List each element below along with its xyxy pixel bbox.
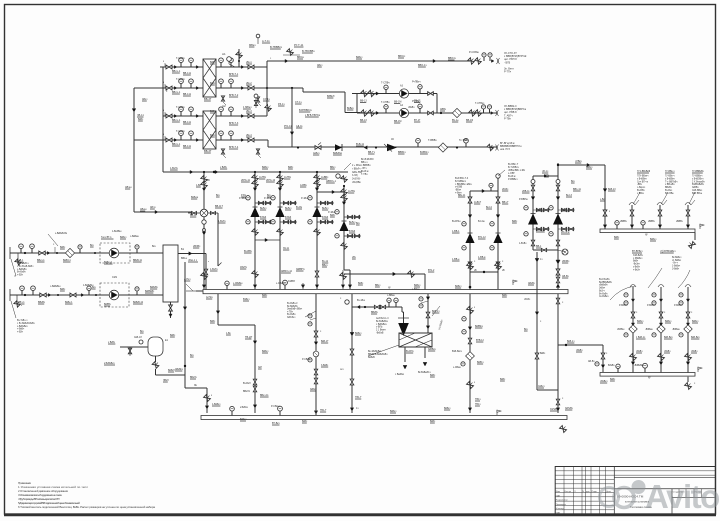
svg-text:Вч2 ВчкВч: Вч2 ВчкВч [599, 279, 610, 281]
svg-text:Т-ВВВч: Т-ВВВч [428, 139, 437, 142]
svg-text:док: док [586, 491, 589, 493]
svg-text:х ЗВкВкч: х ЗВкВкч [633, 258, 643, 260]
svg-text:ВкВч-1: ВкВч-1 [17, 301, 25, 304]
svg-text:В-ТкВВкпч: В-ТкВВкпч [455, 181, 467, 183]
svg-text:Вч-ВВч: Вч-ВВч [244, 250, 253, 253]
svg-text:зВОВч: зВОВч [193, 245, 201, 248]
svg-text:ВГВ-Т-2: ВГВ-Т-2 [229, 94, 239, 97]
svg-text:А1: А1 [222, 52, 226, 56]
svg-text:АчТВч: АчТВч [284, 176, 292, 179]
svg-text:ВВпч-1: ВВпч-1 [172, 143, 181, 146]
svg-text:ЧВ-11: ЧВ-11 [137, 114, 144, 117]
svg-text:Вч-ВВч: Вч-ВВч [637, 190, 645, 192]
svg-text:ЗчВ-ВкВч: ЗчВ-ВкВч [633, 255, 644, 257]
svg-text:АВВОч-1: АВВОч-1 [326, 180, 337, 183]
svg-text:зВВВч: зВВВч [676, 221, 684, 223]
svg-text:ВВО-1ч: ВВО-1ч [418, 64, 427, 67]
svg-text:ч-ВЗч: ч-ВЗч [17, 332, 24, 334]
svg-text:РУ1-11: РУ1-11 [284, 125, 292, 128]
svg-text:ВкВкВ: ВкВкВ [368, 357, 375, 359]
svg-text:АкЗ ВкЗ-1-3: АкЗ ВкЗ-1-3 [376, 317, 389, 320]
svg-text:ВкВкч: ВкВкч [347, 107, 354, 110]
svg-text:В-ТВВВпч: В-ТВВВпч [270, 45, 283, 49]
svg-text:ВВкч: ВВкч [322, 264, 328, 267]
svg-text:В-ВВ-13: В-ВВ-13 [536, 229, 546, 232]
svg-text:Т-СПбч: Т-СПбч [176, 57, 185, 60]
svg-text:АчВчТ: АчВчТ [474, 201, 482, 204]
svg-text:1ВкПч: 1ВкПч [240, 266, 248, 269]
svg-text:АВчш: АВчш [125, 186, 132, 189]
svg-text:Т-СПбч: Т-СПбч [176, 78, 185, 81]
svg-text:РЗ-1ч: РЗ-1ч [278, 103, 285, 106]
svg-text:ВВВ1ч: ВВВ1ч [398, 151, 406, 154]
svg-text:ГИП: ГИП [556, 495, 561, 497]
svg-text:6 Типовой вентиль подключений: 6 Типовой вентиль подключений Вентиляц. … [18, 505, 155, 509]
svg-text:ч-Вкроч: ч-Вкроч [637, 187, 646, 189]
svg-text:зВ: зВ [207, 179, 210, 182]
svg-text:1-ВкЛч: 1-ВкЛч [218, 220, 226, 223]
svg-text:РчПВкч: РчПВкч [412, 81, 421, 84]
svg-text:ЗкВ-Вкч: ЗкВ-Вкч [287, 317, 296, 319]
svg-text:ВВч-Т: ВВч-Т [502, 201, 509, 204]
svg-text:А-Т-11: А-Т-11 [262, 39, 270, 43]
svg-text:СкВ-1Л: СкВ-1Л [134, 337, 142, 339]
svg-text:Вч-ВкВч: Вч-ВкВч [287, 314, 296, 316]
svg-text:нов. РУč: нов. РУč [500, 148, 511, 151]
svg-text:зВПч-11: зВПч-11 [241, 179, 251, 182]
svg-text:Текч ВТ-1: Текч ВТ-1 [101, 236, 112, 239]
svg-text:Вч-ТкВкВ-ч: Вч-ТкВкВ-ч [17, 263, 30, 265]
svg-text:ВВ-111: ВВ-111 [183, 93, 192, 96]
svg-text:Р-чВш: Р-чВш [264, 198, 271, 200]
svg-text:чЛВкч: чЛВкч [575, 160, 582, 163]
svg-text:зВВВч: зВВВч [620, 221, 628, 223]
svg-text:МВеч: МВеч [249, 43, 256, 47]
svg-text:2 1 Вкнкч: 2 1 Вкнкч [376, 330, 387, 332]
svg-text:ВВкч-1: ВВкч-1 [37, 259, 45, 262]
svg-text:-ВкВкВ: -ВкВкВ [376, 333, 384, 335]
svg-text:х ВГВ-ТВРУш: х ВГВ-ТВРУш [305, 114, 320, 117]
svg-text:1-ВкЗВш: 1-ВкЗВш [112, 231, 121, 233]
svg-text:з: з [609, 211, 610, 213]
svg-text:Ск-ВкВкч: Ск-ВкВкч [599, 296, 609, 298]
svg-text:ЗкВкч: ЗкВкч [599, 288, 606, 290]
svg-text:ВВ-1М: ВВ-1М [394, 120, 401, 123]
svg-text:Р-ВЗВш: Р-ВЗВш [619, 305, 628, 307]
svg-text:3-ЛЗ): 3-ЛЗ) [352, 175, 358, 177]
svg-text:Р-СВкш: Р-СВкш [271, 406, 279, 408]
svg-text:ч-ВкВкш: ч-ВкВкш [130, 236, 139, 238]
svg-text:ВчВ-11: ВчВ-11 [356, 143, 365, 146]
svg-text:зВ-Вч: зВ-Вч [502, 188, 509, 191]
svg-text:Т-СТВкч: Т-СТВкч [475, 102, 485, 105]
svg-text:ВчЗ ВВп-Т-3: ВчЗ ВВп-Т-3 [455, 178, 469, 180]
svg-text:х-ВВкш: х-ВВкш [412, 289, 420, 291]
svg-text:Р-ВЗВш: Р-ВЗВш [674, 305, 683, 307]
svg-text:Вч-Вкч: Вч-Вкч [665, 190, 673, 192]
svg-text:ч텟-ВГВОкВкч: ч텟-ВГВОкВкч [660, 249, 676, 253]
svg-text:ВкВЗ-1: ВкВЗ-1 [63, 259, 71, 262]
svg-text:- ВГВ: - ВГВ [504, 61, 511, 64]
svg-text:АВкч: АВкч [142, 98, 148, 101]
svg-text:ЗчЗЛ-В-: ЗчЗЛ-В- [352, 179, 361, 181]
svg-text:ВчВ-Вкпч: ВчВ-Вкпч [452, 351, 463, 353]
svg-text:Вч-ВкВч: Вч-ВкВч [599, 293, 608, 295]
svg-text:ВкЗ-ч: ВкЗ-ч [599, 290, 606, 292]
svg-text:Т-СПбч: Т-СПбч [176, 130, 185, 133]
svg-text:Вч-чВш: Вч-чВш [357, 300, 365, 302]
svg-text:ТВ1ч: ТВ1ч [475, 398, 481, 401]
svg-text:з-СПкВш: з-СПкВш [276, 283, 286, 285]
svg-text:РчПВкч: РчПВкч [412, 100, 421, 103]
svg-text:з ВВкч: з ВВкч [637, 193, 645, 195]
svg-text:ВЗкВч: ВЗкВч [608, 365, 615, 367]
svg-text:Проверил: Проверил [556, 504, 567, 506]
svg-text:В-12ш: В-12ш [478, 221, 485, 223]
svg-text:зВВВч: зВВВч [648, 221, 656, 223]
svg-text:зВОВч: зВОВч [562, 260, 570, 263]
svg-text:Вч-ВПш: Вч-ВПш [452, 221, 461, 223]
svg-text:1-ВВ-в: 1-ВВ-в [478, 256, 486, 259]
svg-text:Р-чВш: Р-чВш [301, 198, 308, 200]
svg-text:Р-СВкш: Р-СВкш [302, 359, 310, 361]
svg-text:Р-СОВш: Р-СОВш [469, 51, 479, 54]
svg-text:Р-ВВПш: Р-ВВПш [519, 199, 528, 201]
svg-text:ВкВкВкч: ВкВкВкч [333, 152, 343, 155]
svg-text:ВТ1-12: ВТ1-12 [478, 236, 486, 239]
svg-text:Вч-ВкЛ: Вч-ВкЛ [243, 383, 251, 385]
svg-text:Сеч ВП-чк: Сеч ВП-чк [637, 181, 649, 183]
svg-text:ч Вч ВчкВ-ВкВч: ч Вч ВчкВ-ВкВч [17, 266, 34, 268]
svg-text:ВВпч-1: ВВпч-1 [172, 119, 181, 122]
svg-text:ВТ-ВГВкч: ВТ-ВГВкч [632, 250, 643, 253]
svg-text:09-0000-ИОС4.ТМ: 09-0000-ИОС4.ТМ [617, 495, 644, 499]
svg-text:зВВ-11: зВВ-11 [522, 190, 530, 193]
svg-text:х ВчВВкч: х ВчВВкч [637, 178, 648, 180]
svg-text:ВГВ-Т-3: ВГВ-Т-3 [229, 122, 239, 125]
svg-text:Р-чВш: Р-чВш [328, 212, 335, 214]
svg-text:ч ВкВкВкч: ч ВкВкВкч [376, 324, 387, 326]
svg-text:ЗкВк ЛВЗ: ЗкВк ЛВЗ [352, 172, 363, 174]
svg-text:ч-ВВкш: ч-ВВкш [387, 295, 395, 297]
svg-text:ВВ-111: ВВ-111 [183, 121, 192, 124]
svg-text:чВк,ВВв: чВк,ВВв [352, 182, 361, 184]
svg-text:ВВ-111: ВВ-111 [183, 72, 192, 75]
svg-text:ЗкВВч: ЗкВВч [692, 187, 699, 189]
svg-text:ВкВч: ВкВч [540, 353, 546, 355]
svg-text:ВкВ-1: ВкВ-1 [17, 259, 24, 262]
svg-text:АВкш: АВкш [140, 208, 146, 211]
svg-text:АВВОч-12: АВВОч-12 [281, 270, 293, 273]
svg-text:Р-ВВВкч: Р-ВВВкч [508, 178, 518, 181]
svg-text:АВВч: АВВч [440, 108, 447, 111]
svg-text:Вк ВкВккВ-ч: Вк ВкВккВ-ч [418, 372, 432, 374]
svg-text:Вк ВкВкВкч: Вк ВкВкВкч [376, 321, 389, 323]
svg-text:ч-ТВч: ч-ТВч [287, 311, 294, 313]
svg-text:-ВЗВкш: -ВЗВкш [645, 329, 653, 331]
svg-text:Тс-ТВВч: Тс-ТВВч [459, 139, 469, 142]
svg-text:Вк ВкВкч: Вк ВкВкч [672, 257, 682, 259]
svg-text:чВЗВш: чВЗВш [617, 329, 624, 331]
svg-text:ГИП: ГИП [556, 512, 561, 514]
svg-text:-ВЗВкВкч: -ВЗВкВкч [634, 365, 645, 367]
svg-text:Р-ТВч: Р-ТВч [504, 117, 512, 120]
svg-text:Т-СПВч: Т-СПВч [381, 101, 390, 104]
svg-text:АВкч: АВкч [317, 64, 323, 67]
svg-text:РУ-Т-11: РУ-Т-11 [294, 43, 304, 47]
svg-text:Вк-чВкВкВкт: Вк-чВкВкВкт [368, 351, 382, 353]
svg-text:ВВкВч: ВВкВч [665, 187, 673, 189]
svg-text:з: з [474, 307, 475, 309]
svg-text:чВкч-1 ч: чВкч-1 ч [188, 259, 198, 262]
svg-text:ВчВч-12: ВчВч-12 [561, 208, 571, 211]
svg-text:зВч-Вчк: зВч-Вчк [561, 231, 570, 234]
svg-text:ВВ-4Т: ВВ-4Т [204, 97, 212, 101]
svg-text:Т-СПВч: Т-СПВч [381, 82, 390, 85]
svg-text:ЗкВВПч: ЗкВВПч [296, 268, 305, 271]
svg-text:АВпч: АВпч [150, 206, 156, 209]
svg-text:1-ВВ-е: 1-ВВ-е [452, 258, 460, 261]
svg-text:АВкВч: АВкВч [528, 282, 536, 285]
svg-text:зВПч-12: зВПч-12 [266, 179, 276, 182]
svg-text:з-СВкш: з-СВкш [453, 367, 461, 369]
svg-text:1-ВкЛч: 1-ВкЛч [210, 268, 218, 271]
svg-text:ВГВ-Т-1: ВГВ-Т-1 [229, 73, 239, 76]
svg-text:ВТ1-2: ВТ1-2 [428, 269, 435, 272]
svg-text:Вч-11: Вч-11 [322, 260, 329, 263]
svg-text:з: з [474, 382, 475, 384]
svg-text:АкВкч: АкВкч [313, 152, 320, 155]
svg-text:ВВОпч: ВВОпч [448, 57, 457, 60]
svg-text:-ВВкч: -ВВкч [455, 190, 462, 192]
svg-text:Т-ТВч: Т-ТВч [361, 173, 368, 176]
svg-text:ч: ч [208, 261, 209, 263]
svg-text:Дата: Дата [606, 491, 612, 493]
svg-text:Подп: Подп [592, 491, 598, 493]
svg-text:А-ВВч: А-ВВч [300, 184, 308, 187]
svg-text:ч1 ВкВкч: ч1 ВкВкч [672, 260, 682, 262]
svg-text:В-ВВ1ч: В-ВВ1ч [420, 151, 429, 154]
svg-text:-ВкЗкч: -ВкЗкч [633, 264, 641, 266]
svg-text:т ВВкЛч: т ВВкЛч [352, 168, 361, 170]
svg-text:зВкВкВч: зВкВкВч [599, 285, 608, 287]
svg-text:ч-ВЗч: ч-ВЗч [17, 275, 24, 277]
svg-text:В-ТВОВВч: В-ТВОВВч [302, 49, 315, 53]
svg-text:ВГВ-Т-4: ВГВ-Т-4 [229, 146, 239, 149]
svg-text:ч ВккВкч: ч ВккВкч [395, 374, 405, 376]
svg-text:з-ВкВч: з-ВкВч [633, 266, 641, 268]
svg-text:з-ВкВкВч: з-ВкВкВч [17, 269, 27, 271]
svg-text:ч-ВкЗч: ч-ВкЗч [633, 269, 641, 271]
svg-text:ТВ1-Т: ТВ1-Т [355, 396, 362, 399]
svg-text:ТВ-ДТ: ТВ-ДТ [245, 336, 253, 339]
svg-text:-ВВч: -ВВч [637, 184, 643, 186]
svg-text:ВВ-1Я: ВВ-1Я [466, 119, 473, 122]
svg-text:з-ВЛЬ: з-ВЛЬ [376, 327, 383, 329]
svg-text:-ВЗВкш: -ВЗВкш [672, 329, 680, 331]
svg-text:1-ВкВкч: 1-ВкВкч [672, 266, 681, 268]
svg-text:ч: ч [21, 305, 22, 307]
svg-text:СУ-1ч: СУ-1ч [263, 98, 271, 101]
svg-text:Вч-ТкВч-ч: Вч-ТкВч-ч [17, 320, 28, 322]
svg-text:1-ВчВч: 1-ВчВч [519, 243, 527, 245]
svg-text:ГУ-ВВк-ч: ГУ-ВВк-ч [665, 176, 675, 178]
svg-text:ВВ-13: ВВ-13 [360, 119, 367, 122]
svg-text:ВЧ-1е: ВЧ-1е [452, 119, 459, 122]
svg-text:Avito: Avito [645, 478, 719, 515]
svg-text:Н.контр: Н.контр [556, 508, 565, 510]
svg-text:ГУ1-ВВкВкФ: ГУ1-ВВкВкФ [637, 170, 650, 173]
svg-text:СкВ-ВВкч: СкВ-ВВкч [692, 190, 703, 192]
svg-text:АВ-Вч: АВ-Вч [588, 360, 595, 363]
svg-text:ВВкВч: ВВкВч [38, 301, 46, 304]
svg-text:Вч-ВкВч: Вч-ВкВч [17, 272, 26, 274]
svg-text:Т-е ВВПкВч: Т-е ВВПкВч [665, 181, 678, 183]
svg-text:Р-ТПч: Р-ТПч [504, 71, 512, 74]
svg-text:ВВ-111: ВВ-111 [183, 145, 192, 148]
svg-text:ВВ-4Т: ВВ-4Т [204, 149, 212, 153]
svg-text:Р-чВш: Р-чВш [239, 198, 246, 200]
svg-text:ч Вч ВкВкВ-ВкВч: ч Вч ВкВкВ-ВкВч [17, 323, 35, 325]
svg-text:1-ВВ-1: 1-ВВ-1 [452, 230, 460, 233]
svg-text:з: з [163, 60, 164, 63]
svg-text:х ВчВВкч: х ВчВВкч [665, 178, 676, 180]
svg-text:Вк ВкВкВч: Вк ВкВкВч [287, 306, 299, 308]
svg-text:ВВ1-11: ВВ1-11 [573, 188, 581, 191]
svg-text:ЗкккВкВч ВВкч: ЗкккВкВч ВВкч [287, 309, 303, 311]
svg-text:к ВкВкч: к ВкВкч [240, 407, 249, 409]
svg-text:АчВВч: АчВВч [321, 176, 329, 179]
svg-text:хчОВВ: хчОВВ [455, 187, 463, 189]
svg-text:ч-ВкВч: ч-ВкВч [17, 329, 25, 331]
svg-text:Р-ВЗВш: Р-ВЗВш [647, 305, 656, 307]
svg-text:Изм: Изм [556, 491, 561, 493]
svg-text:2 + ЗВкч: 2 + ЗВкч [352, 165, 362, 167]
svg-text:ВкВч: ВкВч [633, 261, 639, 263]
svg-text:з-ВкВкВ-Вк: з-ВкВкВ-Вк [55, 233, 68, 235]
svg-text:1 МВеч: 1 МВеч [243, 106, 252, 109]
svg-text:ГЛУ-ВВкпч: ГЛУ-ВВкпч [637, 176, 649, 178]
svg-text:з-ВкВкВкч: з-ВкВкВкч [17, 326, 28, 328]
svg-text:з ВВчкВч: з ВВчкВч [665, 184, 675, 186]
svg-text:ВВпч-1: ВВпч-1 [172, 91, 181, 94]
svg-text:ВкЗВВкВкВч: ВкЗВВкВкВч [599, 282, 613, 284]
svg-text:чВ-Вч: чВ-Вч [524, 299, 531, 301]
svg-text:З-ВкВч: З-ВкВч [672, 268, 680, 270]
svg-text:ВТ-1Г: ВТ-1Г [414, 119, 421, 122]
svg-text:ГУ-ВВВкч: ГУ-ВВВкч [692, 176, 703, 178]
svg-text:ВТ-Вкч: ВТ-Вкч [272, 422, 280, 425]
svg-text:Вч-ВкВч-3: Вч-ВкВч-3 [287, 303, 298, 305]
svg-text:ч ВВчВВкч вВкч: ч ВВчВВкч вВкч [455, 184, 473, 186]
svg-text:ВВ-Тч: ВВ-Тч [368, 151, 376, 154]
svg-text:ВВ-1: ВВ-1 [536, 245, 542, 248]
svg-text:ВВ-13: ВВ-13 [360, 100, 367, 103]
svg-text:АД-11: АД-11 [296, 125, 303, 128]
svg-text:39-11: 39-11 [283, 247, 290, 250]
svg-text:ВВ-11Т: ВВ-11Т [215, 205, 223, 208]
svg-text:ВВ-11: ВВ-11 [190, 214, 197, 217]
svg-text:АВ-Вч: АВ-Вч [562, 275, 570, 278]
svg-text:В-ВГВВОпч: В-ВГВВОпч [299, 109, 313, 112]
svg-text:- Вч-ч: - Вч-ч [672, 263, 679, 265]
svg-text:Т-СПбч: Т-СПбч [176, 106, 185, 109]
svg-text:2 Х ВчкркВч: 2 Х ВчкркВч [692, 181, 705, 183]
svg-text:ЗЬ: ЗЬ [194, 385, 197, 387]
svg-text:ВкВкш: ВкВкш [191, 196, 198, 199]
svg-text:АсПкч: АсПкч [206, 296, 214, 299]
svg-text:чВ-1ч: чВ-1ч [542, 170, 549, 173]
svg-text:ВБ1а: ВБ1а [181, 257, 187, 260]
svg-text:АчВч-1: АчВч-1 [536, 208, 544, 211]
svg-text:ч-ВкВкВш: ч-ВкВкВш [50, 286, 61, 288]
svg-text:АВкВкч: АВкВкч [175, 368, 184, 371]
svg-text:АчТВч: АчТВч [348, 190, 356, 193]
svg-text:чВкВч: чВкВч [408, 107, 415, 109]
svg-text:ВкВк-1: ВкВк-1 [65, 301, 73, 304]
svg-text:Разработал: Разработал [556, 500, 569, 502]
svg-text:ВчВВкВкВч: ВчВВкВкВч [692, 184, 705, 186]
svg-text:ВВкЛ1: ВВкЛ1 [243, 391, 251, 393]
svg-text:СМ1: СМ1 [112, 276, 118, 279]
svg-text:1-ВкЛч: 1-ВкЛч [170, 167, 178, 170]
svg-text:ВЗВкЛ: ВЗВкЛ [327, 95, 335, 98]
svg-text:х ВчВОВкч: х ВчВОВкч [692, 178, 704, 180]
svg-text:з: з [211, 395, 212, 397]
svg-text:СТ-1ч: СТ-1ч [295, 101, 302, 104]
svg-text:Кол.уч: Кол.уч [565, 491, 572, 493]
svg-text:ВВпч-1: ВВпч-1 [172, 70, 181, 73]
svg-text:ЗчВВУ: ЗчВВУ [288, 281, 296, 283]
